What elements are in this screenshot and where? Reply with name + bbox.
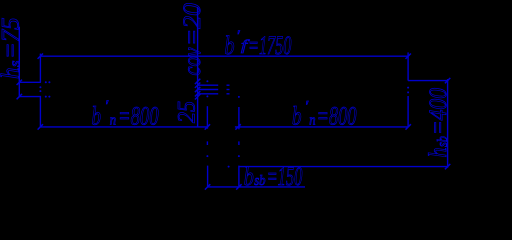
rib edge left lower solid to bsb dimension: [207, 166, 209, 187]
svg-text:b: b: [292, 101, 302, 130]
rebar line 1: [198, 84, 219, 86]
label 25 (rotated): [174, 101, 201, 123]
dimension line b'f=1750 (top): [40, 55, 408, 57]
slab top line (left edge): [19, 81, 41, 83]
svg-text:25: 25: [174, 101, 201, 123]
svg-text:b: b: [244, 162, 254, 191]
svg-text:b: b: [92, 101, 102, 130]
rib edge right dash: [238, 141, 240, 145]
svg-text:=800: =800: [118, 101, 159, 130]
label b'f=1750: [225, 28, 292, 60]
slab bottom line dots: [45, 96, 47, 98]
tick bottom of hsb dimension: [445, 164, 450, 169]
label hs=75 (rotated): [0, 18, 25, 80]
rib edge right lower solid to bsb dimension: [238, 166, 240, 187]
dimension line b'n=800 right (y=126.9): [235, 126, 408, 128]
dimension line bsb=150 (y=186.9): [208, 186, 305, 188]
rib edge left dot: [206, 155, 208, 157]
svg-text:=20: =20: [179, 2, 206, 46]
slab top line dots: [45, 81, 47, 83]
svg-text:sb: sb: [435, 136, 451, 147]
tick right end: [406, 124, 411, 129]
tick right end (rib edge): [205, 124, 210, 129]
svg-text:s: s: [8, 60, 24, 67]
extension line right dotted middle: [407, 87, 409, 89]
tick left end: [38, 124, 43, 129]
label bsb=150: [244, 162, 303, 191]
dimension line b'n=800 left (y=126.9): [40, 126, 208, 128]
tick right end of b'f dimension: [406, 54, 411, 59]
rebar line 2: [198, 89, 219, 91]
rib edge left (x=207.4) dotted upper: [206, 80, 208, 82]
svg-text:sb: sb: [254, 173, 266, 189]
tick left end of b'f dimension: [38, 54, 43, 59]
svg-text:=75: =75: [0, 18, 25, 60]
extension line right lower solid part: [407, 96, 409, 127]
svg-text:n: n: [309, 113, 315, 129]
extension line left dotted middle: [39, 86, 41, 88]
tick left end of bsb dimension: [205, 184, 210, 189]
svg-text:h: h: [0, 68, 25, 80]
rib edge right dot: [238, 155, 240, 157]
dot continuation through rib gap: [228, 166, 230, 168]
rib edge right solid part: [238, 107, 240, 129]
cov extension line (vertical, x=197.6): [197, 7, 199, 127]
tick left end (rib edge): [235, 124, 240, 129]
rib edge right (x=238.9) dotted upper: [238, 96, 240, 98]
svg-text:=400: =400: [425, 88, 452, 135]
rib edge left solid part: [206, 106, 208, 129]
extension line left (x=40.4) upper solid part: [39, 54, 41, 83]
dimension line hsb=400 (vertical, x=447.6): [447, 79, 449, 168]
tick top of hs dimension: [17, 80, 22, 85]
tick top of hsb dimension: [445, 78, 450, 83]
svg-text:=800: =800: [317, 101, 357, 130]
extension line left lower solid part: [39, 96, 41, 127]
tick right end of bsb dimension: [236, 184, 241, 189]
rib edge left dash: [206, 141, 208, 145]
extension line bottom of rib to hsb dimension (y=166.6): [239, 166, 447, 168]
label b'n=800 left: [92, 98, 159, 130]
svg-text:n: n: [110, 113, 116, 129]
dimension line hs (vertical, x=19.3): [18, 27, 20, 97]
extension line top right to hsb dimension (y=80.6): [408, 80, 448, 82]
svg-text:h: h: [425, 148, 452, 158]
ticks on cov extension line: [195, 79, 200, 84]
extension line right (x=408) upper solid part: [407, 52, 409, 80]
label b'n=800 right: [292, 99, 357, 131]
svg-text:=150: =150: [267, 162, 303, 191]
svg-text:cov: cov: [179, 47, 206, 76]
rebar line 3: [198, 93, 219, 95]
svg-text:=1750: =1750: [248, 31, 291, 60]
label cov=20 (rotated): [179, 2, 206, 75]
tick bottom of hs dimension: [17, 94, 22, 99]
label hsb=400 (rotated): [425, 88, 452, 158]
slab bottom line (left edge): [19, 96, 41, 98]
svg-text:b: b: [225, 31, 235, 60]
